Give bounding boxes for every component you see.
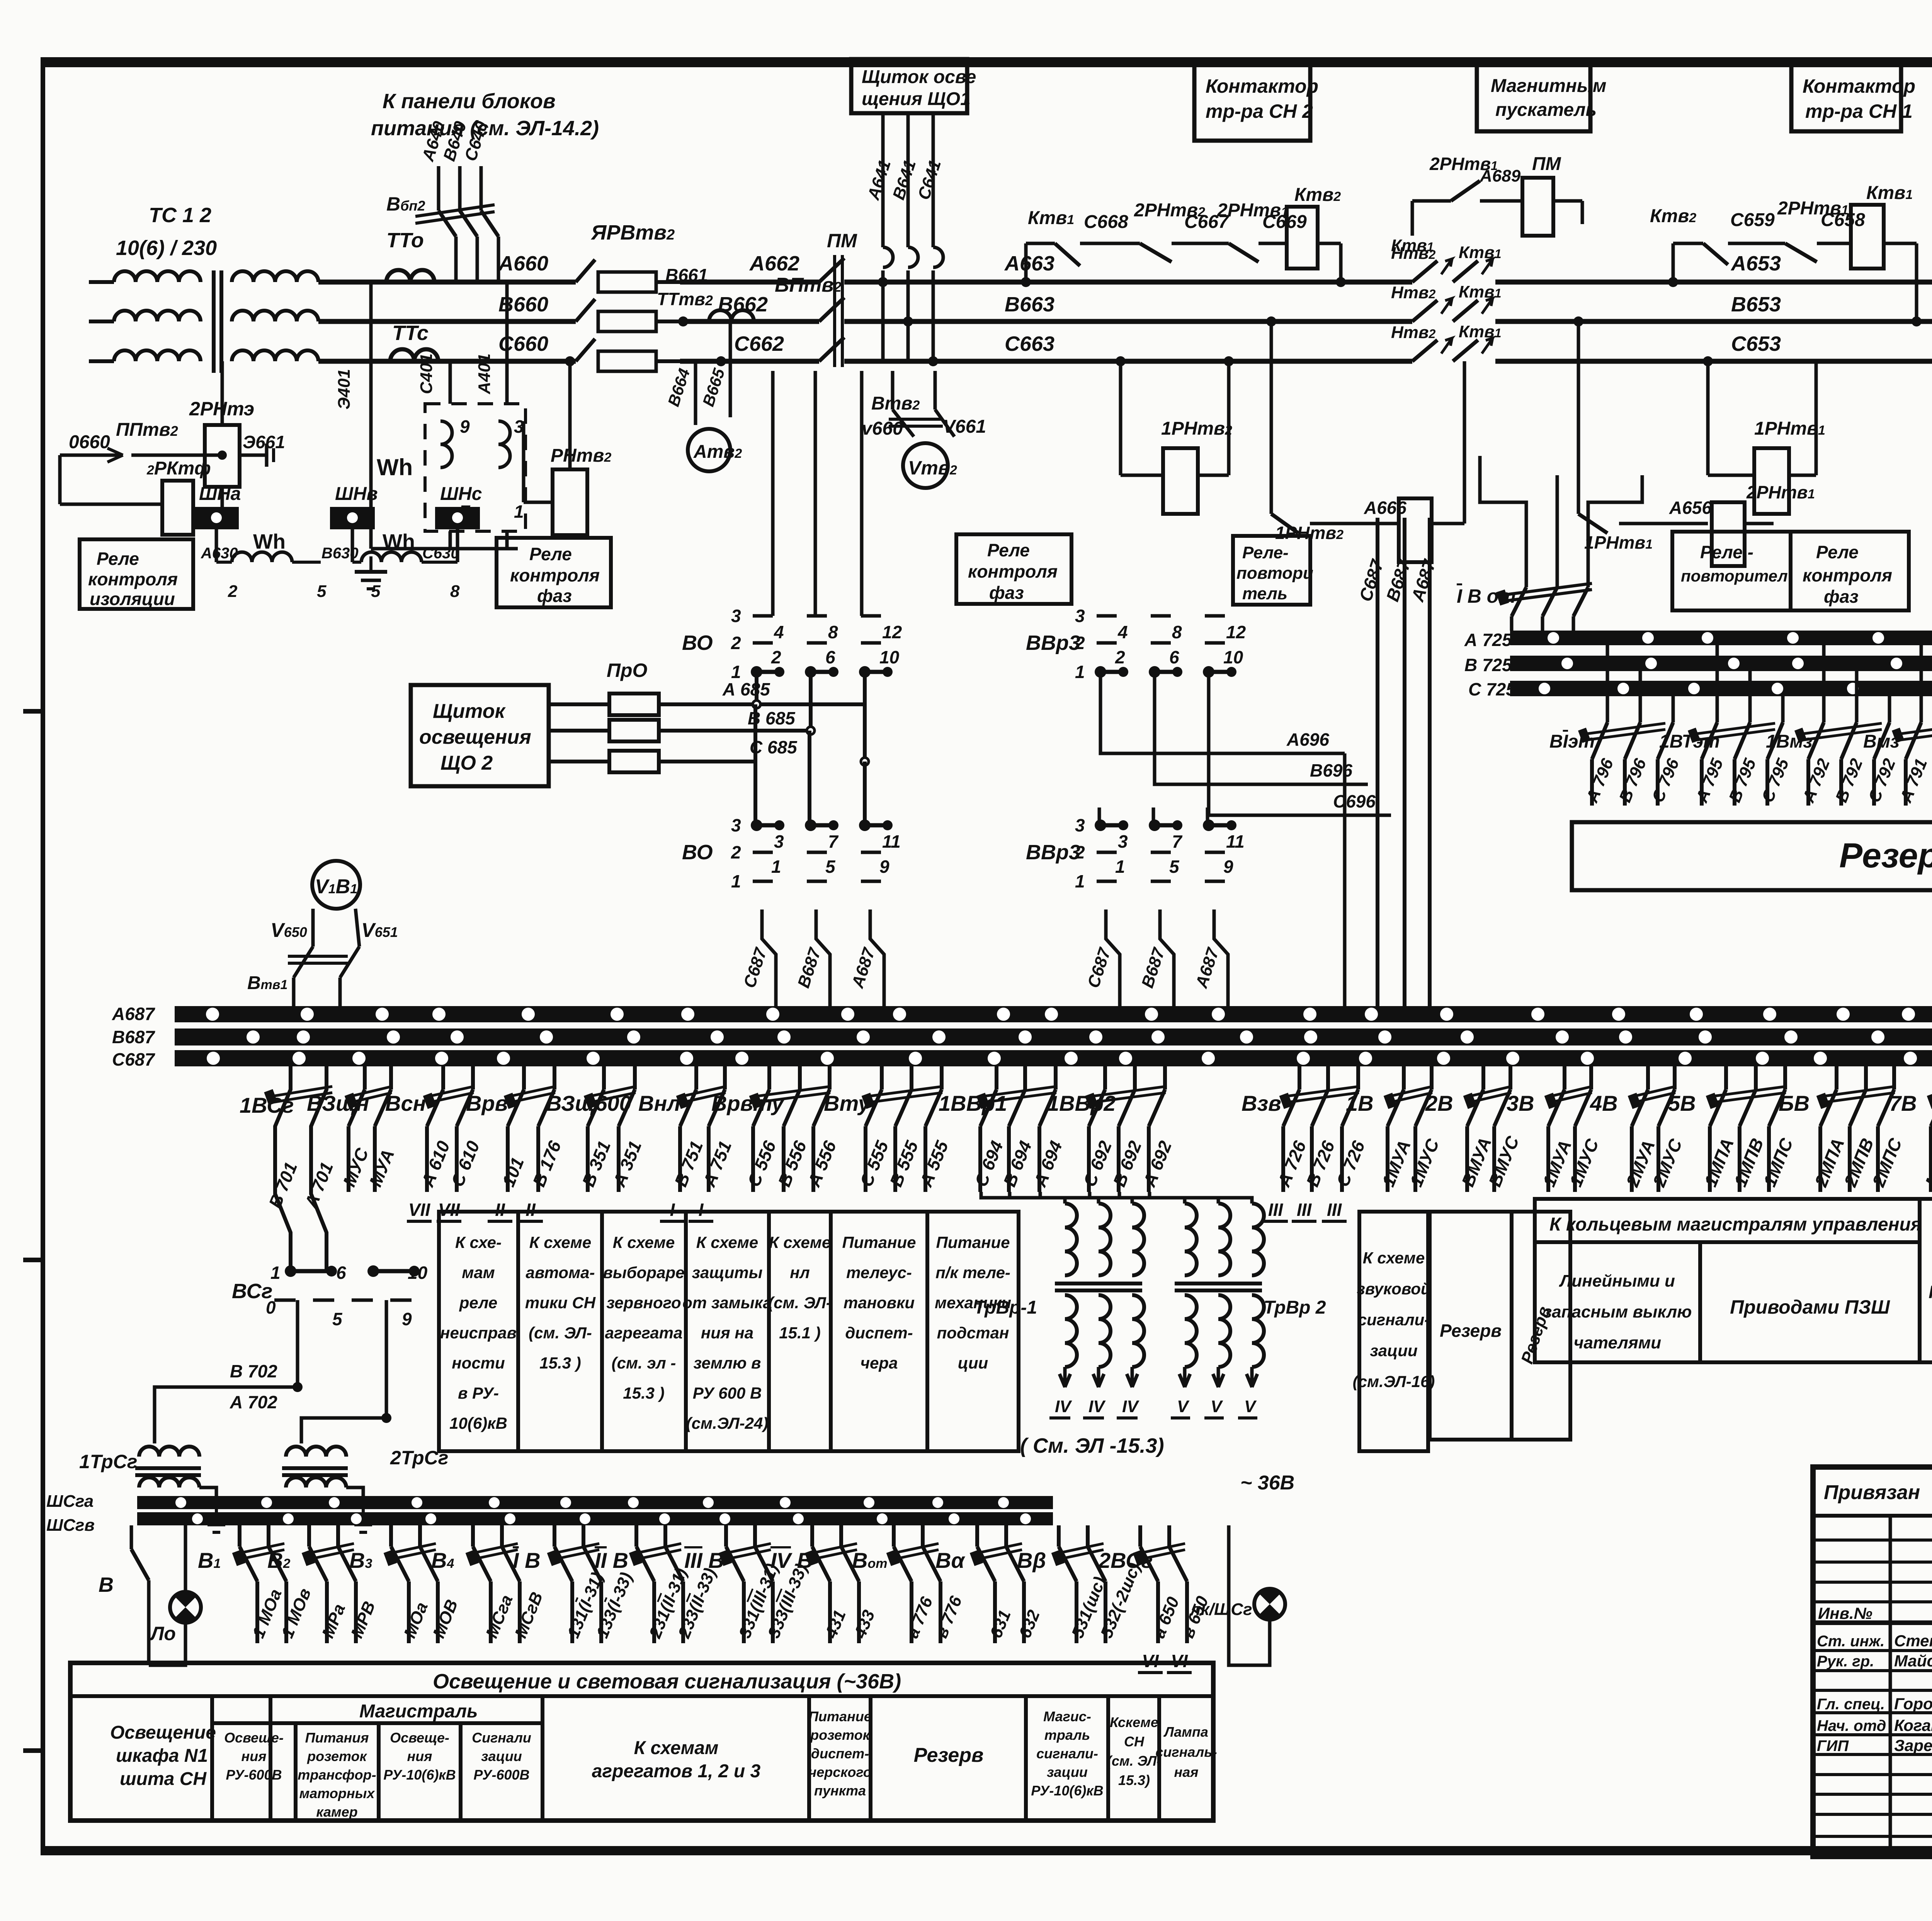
svg-text:Щиток: Щиток xyxy=(433,700,506,722)
relay 2RNtv2 + A666 xyxy=(1270,321,1273,514)
svg-text:11: 11 xyxy=(1226,831,1245,852)
svg-text:Реле: Реле xyxy=(1816,542,1859,562)
svg-text:Контактор: Контактор xyxy=(1803,75,1915,97)
title block: privyazan table xyxy=(1813,1467,1932,1856)
svg-text:от замыка: от замыка xyxy=(682,1294,772,1312)
label box: Rezerv big xyxy=(1572,822,1932,890)
svg-text:фаз: фаз xyxy=(989,583,1024,603)
svg-text:ГИП: ГИП xyxy=(1817,1737,1849,1754)
feeder switch Врв (101, В 176) xyxy=(522,1066,526,1090)
svg-text:1: 1 xyxy=(731,662,741,682)
svg-text:Питание: Питание xyxy=(936,1233,1010,1251)
svg-text:2: 2 xyxy=(1115,647,1125,667)
relay 1RNtv2 xyxy=(1119,361,1122,475)
svg-text:В653: В653 xyxy=(1731,293,1781,316)
feeder switch 1Вмз (А 792, В 792, С 792) xyxy=(1822,645,1826,722)
svg-text:ТТс: ТТс xyxy=(392,321,429,345)
svg-text:пускатель: пускатель xyxy=(1495,100,1597,120)
svg-text:Освещение и световая сигнал: Освещение и световая сигнализация (~36В) xyxy=(433,1670,901,1693)
svg-text:Гл. спец.: Гл. спец. xyxy=(1817,1696,1885,1713)
svg-text:К схеме: К схеме xyxy=(769,1233,831,1251)
svg-text:телеус-: телеус- xyxy=(846,1263,912,1282)
svg-text:Wh: Wh xyxy=(253,530,286,553)
svg-text:землю в: землю в xyxy=(694,1354,761,1372)
svg-text:РУ-600В: РУ-600В xyxy=(473,1767,529,1783)
svg-text:10: 10 xyxy=(1223,647,1243,667)
svg-text:IV: IV xyxy=(1088,1397,1106,1416)
label box: Kontaktor tr-ra SN1 xyxy=(1791,63,1901,131)
feeder switch 2ВСг (а 650, в 650) xyxy=(1138,1525,1142,1547)
svg-text:запасным выклю: запасным выклю xyxy=(1543,1302,1692,1321)
svg-text:9: 9 xyxy=(460,416,470,437)
svg-text:А696: А696 xyxy=(1286,729,1329,750)
svg-text:ШНв: ШНв xyxy=(335,484,378,504)
svg-text:Питания: Питания xyxy=(305,1730,369,1746)
svg-text:15.3 ): 15.3 ) xyxy=(623,1384,664,1402)
feeder switch В2 (МРа, МРВ) xyxy=(307,1525,311,1547)
svg-text:1ВВр2: 1ВВр2 xyxy=(1047,1091,1116,1115)
feeder switch III В (331(III-31), 333(III-33)) xyxy=(724,1525,728,1547)
svg-text:Майстровая: Майстровая xyxy=(1894,1652,1932,1670)
svg-text:звуковой: звуковой xyxy=(1357,1280,1430,1298)
label box: rele kontrolya faz xyxy=(956,534,1071,604)
svg-text:маторных: маторных xyxy=(299,1785,376,1801)
svg-text:5: 5 xyxy=(371,582,381,601)
svg-text:тики СН: тики СН xyxy=(525,1294,596,1312)
svg-text:РУ 600 В: РУ 600 В xyxy=(693,1384,762,1402)
svg-text:С687: С687 xyxy=(112,1049,155,1069)
svg-text:Магистраль: Магистраль xyxy=(359,1701,478,1722)
svg-text:10(6) / 230: 10(6) / 230 xyxy=(116,236,217,260)
svg-text:черского: черского xyxy=(808,1764,872,1780)
voltmeter V1v1 xyxy=(312,861,360,909)
svg-text:А656: А656 xyxy=(1669,498,1712,518)
svg-text:I В от: I В от xyxy=(1457,585,1516,607)
svg-text:Вту: Вту xyxy=(824,1091,871,1115)
feeder switch Взв (А 726, В 726, С 726) xyxy=(1298,1066,1301,1090)
svg-text:К схеме: К схеме xyxy=(1363,1249,1425,1267)
svg-text:2: 2 xyxy=(731,842,741,862)
svg-text:3В: 3В xyxy=(1507,1091,1534,1115)
svg-text:Вβ: Вβ xyxy=(1017,1548,1046,1572)
svg-text:ТрВр 2: ТрВр 2 xyxy=(1264,1297,1326,1318)
feeder switch Врвту (С 556, В 556, А 556) xyxy=(767,1066,771,1090)
svg-text:~ 36В: ~ 36В xyxy=(1240,1472,1294,1494)
svg-text:неисправ: неисправ xyxy=(440,1324,517,1342)
svg-text:Питание: Питание xyxy=(808,1708,872,1724)
svg-text:6: 6 xyxy=(825,647,835,667)
svg-text:7: 7 xyxy=(1172,831,1183,852)
svg-text:тр-ра СН 2: тр-ра СН 2 xyxy=(1206,100,1313,122)
svg-text:в РУ-: в РУ- xyxy=(458,1384,499,1402)
svg-text:А 725: А 725 xyxy=(1464,630,1512,650)
svg-text:ШНа: ШНа xyxy=(199,484,241,504)
destination boxes row right xyxy=(1359,1212,1428,1451)
svg-text:пункта: пункта xyxy=(814,1783,866,1799)
contact row SN2 xyxy=(1024,243,1028,282)
feeder switch 4В (2МУА, 2МУС) xyxy=(1646,1066,1650,1090)
svg-text:IV В: IV В xyxy=(770,1548,813,1572)
svg-text:ВПтв2: ВПтв2 xyxy=(775,274,842,296)
svg-text:III: III xyxy=(1297,1200,1312,1220)
feeder switch Вту (С 555, В 555, А 555) xyxy=(880,1066,884,1090)
svg-text:V: V xyxy=(1211,1397,1223,1416)
svg-text:шита СН: шита СН xyxy=(120,1769,207,1789)
svg-text:чателями: чателями xyxy=(1574,1333,1662,1352)
svg-text:(см.ЭЛ-24): (см.ЭЛ-24) xyxy=(686,1414,769,1432)
svg-text:сигнали-: сигнали- xyxy=(1358,1311,1430,1329)
svg-text:ции: ции xyxy=(958,1354,988,1372)
feeder switch Внл (В 751, А 751) xyxy=(694,1066,698,1090)
bus A725 B725 C725 xyxy=(1510,631,1932,645)
svg-text:РНтв2: РНтв2 xyxy=(551,445,611,466)
feeder switch Вмз (А 791, В 791, С 791) xyxy=(1920,645,1923,722)
svg-text:тр-ра СН 1: тр-ра СН 1 xyxy=(1805,100,1913,122)
ammeter Atv2 xyxy=(694,361,697,425)
svg-text:8: 8 xyxy=(1172,622,1182,642)
svg-text:ния: ния xyxy=(241,1748,267,1764)
svg-text:ШСга: ШСга xyxy=(46,1492,94,1511)
svg-text:сигналь-: сигналь- xyxy=(1155,1744,1217,1760)
svg-text:Сигнали: Сигнали xyxy=(472,1730,531,1746)
svg-text:контроля: контроля xyxy=(510,565,600,585)
svg-text:С659: С659 xyxy=(1730,210,1775,230)
svg-text:(см. ЭЛ-: (см. ЭЛ- xyxy=(768,1294,832,1312)
svg-text:зации: зации xyxy=(1370,1341,1417,1360)
svg-text:агрегатов 1, 2 и 3: агрегатов 1, 2 и 3 xyxy=(592,1761,761,1782)
svg-text:зации: зации xyxy=(1047,1764,1088,1780)
border frame xyxy=(41,57,1932,67)
svg-text:Vтв2: Vтв2 xyxy=(908,457,957,479)
svg-text:1: 1 xyxy=(731,871,741,891)
svg-text:ВВр3: ВВр3 xyxy=(1026,841,1080,864)
label box: Kontaktor tr-ra SN2 xyxy=(1194,64,1310,141)
svg-text:трансфор-: трансфор- xyxy=(298,1767,376,1783)
svg-text:Реле: Реле xyxy=(97,549,139,569)
feeder switch II В (231(II-31), 233(II-33)) xyxy=(634,1525,638,1547)
svg-text:Гороховский: Гороховский xyxy=(1894,1695,1932,1713)
svg-text:Внл: Внл xyxy=(638,1091,680,1115)
svg-text:4: 4 xyxy=(774,622,784,642)
svg-text:II В: II В xyxy=(595,1548,628,1572)
label box: rele povtoritel xyxy=(1233,536,1310,605)
feeder switch 3В (1МУА, 1МУС) xyxy=(1563,1066,1566,1090)
svg-text:К схеме: К схеме xyxy=(613,1233,675,1251)
svg-text:2: 2 xyxy=(771,647,781,667)
feeder switch Вот (а 776, в 776) xyxy=(892,1525,896,1547)
svg-text:3: 3 xyxy=(1075,815,1085,835)
svg-text:9: 9 xyxy=(879,857,889,877)
relay 2RNtv1 + A656 xyxy=(1577,321,1580,514)
svg-text:С630: С630 xyxy=(422,545,459,562)
svg-text:1: 1 xyxy=(1075,871,1085,891)
svg-text:розеток: розеток xyxy=(307,1748,367,1764)
svg-text:повтори: повтори xyxy=(1236,564,1313,583)
svg-text:С696: С696 xyxy=(1333,791,1376,811)
svg-text:2: 2 xyxy=(1075,842,1085,862)
svg-text:К схеме: К схеме xyxy=(696,1233,758,1251)
svg-text:1РНтв1: 1РНтв1 xyxy=(1584,532,1653,552)
switches Ktv2 / Ktv1 on lines xyxy=(1412,261,1437,282)
svg-text:контроля: контроля xyxy=(968,561,1058,581)
svg-text:Реле: Реле xyxy=(987,540,1030,560)
svg-text:В 702: В 702 xyxy=(230,1361,277,1381)
svg-text:К схеме: К схеме xyxy=(529,1233,591,1251)
svg-text:ВЗщ600: ВЗщ600 xyxy=(546,1091,631,1115)
svg-text:5: 5 xyxy=(317,582,327,601)
svg-text:Реле -: Реле - xyxy=(1700,542,1753,562)
svg-text:10(6)кВ: 10(6)кВ xyxy=(449,1414,507,1432)
main 220V bus A687 B687 C687 xyxy=(175,1006,1932,1022)
svg-text:повторител: повторител xyxy=(1681,567,1788,585)
svg-text:К схе-: К схе- xyxy=(455,1233,502,1251)
svg-text:СН: СН xyxy=(1124,1734,1145,1749)
svg-text:Освещение: Освещение xyxy=(110,1722,216,1743)
svg-text:9: 9 xyxy=(402,1309,412,1329)
svg-text:ВО: ВО xyxy=(682,631,713,654)
svg-text:Нач. отд: Нач. отд xyxy=(1817,1717,1886,1734)
svg-text:15.3): 15.3) xyxy=(1118,1772,1150,1788)
svg-text:15.3 ): 15.3 ) xyxy=(539,1354,581,1372)
svg-text:Wh: Wh xyxy=(377,454,413,480)
phase lines A653 B653 C653 xyxy=(1495,280,1932,285)
svg-text:ная: ная xyxy=(1174,1764,1199,1780)
label box: rele-povtoritel / rele kontrolya faz xyxy=(1672,532,1791,610)
svg-text:( См. ЭЛ -15.3): ( См. ЭЛ -15.3) xyxy=(1020,1434,1164,1457)
svg-text:2В: 2В xyxy=(1425,1091,1453,1115)
svg-text:щения ЩО1: щения ЩО1 xyxy=(862,89,971,109)
svg-text:Резерв: Резерв xyxy=(1839,836,1932,875)
svg-text:С653: С653 xyxy=(1731,332,1781,355)
svg-text:А663: А663 xyxy=(1004,252,1054,275)
feeder switch I В (131(I-31), 133(I-33)) xyxy=(553,1525,556,1547)
svg-text:VII: VII xyxy=(408,1200,430,1220)
svg-text:ния: ния xyxy=(407,1748,432,1764)
feeder switch ВЗщн (МУС, МУА) xyxy=(363,1066,367,1090)
svg-text:Магнитным: Магнитным xyxy=(1491,76,1606,96)
svg-text:Коган: Коган xyxy=(1894,1716,1932,1734)
svg-text:15.1 ): 15.1 ) xyxy=(779,1324,820,1342)
svg-text:РУ-10(6)кВ: РУ-10(6)кВ xyxy=(1031,1783,1103,1799)
svg-text:ВО: ВО xyxy=(682,841,713,864)
label box: Schitok osvescheniya SCHO2 xyxy=(411,685,549,786)
svg-text:Привязан: Привязан xyxy=(1824,1481,1920,1504)
svg-text:III: III xyxy=(1327,1200,1342,1220)
svg-text:Освеще-: Освеще- xyxy=(224,1730,284,1746)
svg-text:ПМ: ПМ xyxy=(827,230,857,252)
svg-text:автома-: автома- xyxy=(526,1263,595,1282)
svg-text:1В: 1В xyxy=(1346,1091,1374,1115)
svg-text:Резерв: Резерв xyxy=(914,1744,984,1766)
meter Wh left xyxy=(425,404,526,531)
svg-text:v660: v660 xyxy=(862,418,903,439)
feeder switch Всн (А 610, С 610) xyxy=(441,1066,445,1090)
svg-text:Врвту: Врвту xyxy=(711,1091,785,1115)
label box: rele kontrolya faz left xyxy=(497,538,611,607)
svg-text:5В: 5В xyxy=(1668,1091,1696,1115)
svg-text:зервного: зервного xyxy=(606,1294,681,1312)
svg-text:ния на: ния на xyxy=(701,1324,753,1342)
feeder switch 5В (1МПА, 1МПВ, 1МПС) xyxy=(1724,1066,1728,1090)
feeder switch В4 (МСга, МСгВ) xyxy=(471,1525,475,1547)
svg-text:зации: зации xyxy=(481,1748,522,1764)
svg-text:5: 5 xyxy=(825,857,836,877)
svg-text:А653: А653 xyxy=(1730,252,1781,275)
svg-text:Ст. инж.: Ст. инж. xyxy=(1817,1633,1884,1650)
svg-text:I В: I В xyxy=(513,1548,541,1572)
svg-text:Лампа: Лампа xyxy=(1163,1724,1208,1740)
svg-text:тановки: тановки xyxy=(844,1294,915,1312)
relay 1RNtv1 xyxy=(1706,361,1710,475)
svg-text:контроля: контроля xyxy=(88,569,178,589)
wires VO lower to bus xyxy=(762,909,776,1006)
svg-text:А401: А401 xyxy=(475,354,494,394)
svg-text:чера: чера xyxy=(861,1354,898,1372)
svg-text:п/к теле-: п/к теле- xyxy=(935,1263,1010,1282)
svg-text:10: 10 xyxy=(879,647,900,667)
svg-text:V: V xyxy=(1177,1397,1190,1416)
svg-text:5: 5 xyxy=(332,1309,343,1329)
svg-text:Контактор: Контактор xyxy=(1206,75,1318,97)
svg-text:Резерв: Резерв xyxy=(1440,1321,1502,1341)
svg-text:А 685: А 685 xyxy=(722,679,770,699)
svg-text:А660: А660 xyxy=(498,252,548,275)
svg-text:ТТтв2: ТТтв2 xyxy=(657,289,713,309)
svg-text:4В: 4В xyxy=(1590,1091,1618,1115)
svg-text:фаз: фаз xyxy=(1824,586,1859,607)
svg-text:2: 2 xyxy=(1075,633,1085,653)
svg-text:мам: мам xyxy=(462,1263,495,1282)
label box: Magnitnyj puskatel xyxy=(1477,63,1590,131)
svg-text:(см. эл -: (см. эл - xyxy=(612,1354,676,1372)
svg-text:РУ-600В: РУ-600В xyxy=(226,1767,282,1783)
svg-text:(см. ЭЛ-: (см. ЭЛ- xyxy=(1107,1753,1161,1769)
feeder switch ВIэт (А 796, В 796, С 796) xyxy=(1606,645,1609,722)
svg-text:IV: IV xyxy=(1122,1397,1139,1416)
svg-text:В687: В687 xyxy=(112,1027,155,1047)
svg-text:8: 8 xyxy=(450,582,460,601)
svg-text:6: 6 xyxy=(1169,647,1179,667)
svg-text:розеток: розеток xyxy=(810,1727,870,1743)
feeder switch 1В (1МУА, 1МУС) xyxy=(1402,1066,1406,1090)
svg-text:ВIэт: ВIэт xyxy=(1549,731,1595,752)
svg-text:С662: С662 xyxy=(734,332,784,355)
svg-text:Всн: Всн xyxy=(385,1091,426,1115)
feeder switch В1 (1 МОа, 1 МОв) xyxy=(238,1525,241,1547)
svg-text:С663: С663 xyxy=(1005,332,1054,355)
svg-text:реле: реле xyxy=(459,1294,497,1312)
svg-text:1: 1 xyxy=(270,1263,281,1283)
svg-text:А689: А689 xyxy=(1480,167,1521,185)
svg-text:3: 3 xyxy=(1118,831,1128,852)
contact row SN1 xyxy=(1672,243,1675,282)
svg-text:V: V xyxy=(1244,1397,1257,1416)
svg-text:сигнали-: сигнали- xyxy=(1036,1746,1098,1761)
svg-text:Зарецкий: Зарецкий xyxy=(1894,1736,1932,1754)
feeder switch 1ВВр2 (С 692, В 692, А 692) xyxy=(1103,1066,1107,1090)
svg-text:Взв: Взв xyxy=(1242,1091,1281,1115)
svg-text:фаз: фаз xyxy=(537,586,572,606)
svg-text:Линейными и: Линейными и xyxy=(1559,1272,1675,1290)
svg-text:1РНтв2: 1РНтв2 xyxy=(1161,418,1232,439)
svg-text:IV: IV xyxy=(1055,1397,1072,1416)
svg-text:выбораре: выбораре xyxy=(603,1263,685,1282)
svg-text:РУ-10(6)кВ: РУ-10(6)кВ xyxy=(383,1767,456,1783)
svg-text:ВВр3: ВВр3 xyxy=(1026,631,1080,654)
svg-text:нл: нл xyxy=(790,1263,810,1282)
svg-text:1ВВр1: 1ВВр1 xyxy=(939,1091,1007,1115)
phase lines A660 B660 C660 xyxy=(318,280,576,285)
svg-text:лк/ЩСг: лк/ЩСг xyxy=(1189,1600,1252,1619)
svg-text:Реле-: Реле- xyxy=(1242,543,1289,562)
feeder switch 1ВТэт (А 795, В 795, С 795) xyxy=(1716,645,1719,722)
phase lines A662 B662 C662 xyxy=(680,280,819,285)
svg-text:Ло: Ло xyxy=(150,1623,176,1644)
svg-text:12: 12 xyxy=(882,622,902,642)
svg-text:ТТо: ТТо xyxy=(386,229,424,252)
feeder switch БВ (2МПА, 2МПВ, 2МПС) xyxy=(1835,1066,1838,1090)
svg-text:ности: ности xyxy=(452,1354,505,1372)
svg-text:В 725: В 725 xyxy=(1464,655,1512,675)
svg-text:А 702: А 702 xyxy=(230,1392,277,1412)
svg-text:траль: траль xyxy=(1044,1727,1090,1743)
svg-text:1Вмз: 1Вмз xyxy=(1766,731,1813,752)
wires from top to VO group xyxy=(771,371,775,616)
svg-text:камер: камер xyxy=(316,1804,357,1820)
svg-text:Питание: Питание xyxy=(842,1233,916,1251)
svg-text:ШНс: ШНс xyxy=(440,484,482,504)
svg-text:освещения: освещения xyxy=(419,726,531,748)
svg-text:С668: С668 xyxy=(1084,212,1128,232)
svg-text:С 725: С 725 xyxy=(1468,679,1516,699)
svg-text:контроля: контроля xyxy=(1803,565,1892,585)
feeder switch Вβ (531(шс), 532(-2шс)) xyxy=(1057,1525,1061,1547)
svg-text:III: III xyxy=(1268,1200,1284,1220)
svg-text:III В: III В xyxy=(684,1548,724,1572)
svg-text:Освеще-: Освеще- xyxy=(390,1730,449,1746)
svg-text:В: В xyxy=(99,1573,114,1596)
svg-text:С401: С401 xyxy=(417,354,436,394)
svg-text:5: 5 xyxy=(1169,857,1180,877)
svg-text:11: 11 xyxy=(882,831,901,852)
svg-text:3: 3 xyxy=(731,606,741,626)
svg-text:А662: А662 xyxy=(749,252,799,275)
bottom table: osveschenie i svetovaya signalizaciya xyxy=(70,1663,1213,1821)
svg-text:2: 2 xyxy=(228,582,238,601)
feeder switch В3 (МОа, МОВ) xyxy=(389,1525,393,1547)
svg-text:В663: В663 xyxy=(1005,293,1054,316)
svg-text:шкафа N1: шкафа N1 xyxy=(116,1746,208,1766)
svg-text:12: 12 xyxy=(1226,622,1246,642)
svg-text:Врв: Врв xyxy=(466,1091,508,1115)
svg-text:В630: В630 xyxy=(321,545,359,562)
feeder switch 1ВВр1 (С 694, В 694, А 694) xyxy=(995,1066,998,1090)
svg-text:БВ: БВ xyxy=(1779,1091,1810,1115)
svg-text:3: 3 xyxy=(731,815,741,835)
phase lines A663 B663 C663 xyxy=(844,280,1412,285)
label box: Schitok osvescheniya SCHO1 xyxy=(851,59,967,113)
svg-text:Э401: Э401 xyxy=(335,369,354,410)
feeder switch Вα (631, 632) xyxy=(975,1525,979,1547)
svg-text:(см.ЭЛ-16): (см.ЭЛ-16) xyxy=(1353,1372,1435,1391)
svg-text:ТрВр-1: ТрВр-1 xyxy=(974,1297,1037,1318)
svg-text:ЯРВтв2: ЯРВтв2 xyxy=(590,221,675,244)
svg-text:Магис-: Магис- xyxy=(1043,1708,1091,1724)
svg-text:2ВСг: 2ВСг xyxy=(1098,1548,1153,1572)
svg-text:1: 1 xyxy=(771,857,781,877)
svg-text:3: 3 xyxy=(1075,606,1085,626)
svg-text:ТС 1 2: ТС 1 2 xyxy=(149,204,211,227)
